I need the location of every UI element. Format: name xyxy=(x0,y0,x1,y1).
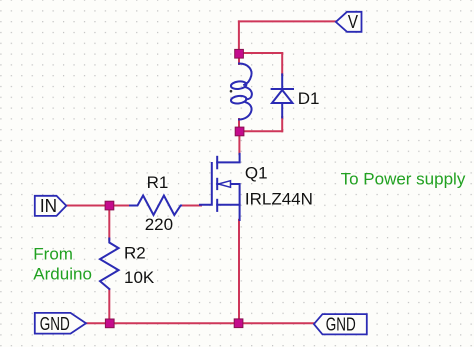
mosfet arrow xyxy=(218,181,230,188)
svg-text:R1: R1 xyxy=(147,173,169,192)
junction node top (inductor top) xyxy=(235,49,244,58)
wire diode branch lower vertical xyxy=(281,117,283,131)
svg-text:To Power supply: To Power supply xyxy=(341,169,466,188)
resistor R1 xyxy=(130,196,181,216)
wire top rail from corner to V port xyxy=(239,20,336,22)
wire R1 to gate xyxy=(181,205,201,207)
svg-text:IN: IN xyxy=(40,195,57,216)
diode D1 xyxy=(272,74,293,117)
wire R2 top xyxy=(108,206,110,240)
junction node bottom middle xyxy=(234,319,243,328)
label IN xyxy=(40,195,57,216)
wire diode branch top horizontal xyxy=(239,52,282,54)
wire mosfet source down to bottom junction xyxy=(238,220,240,323)
svg-text:220: 220 xyxy=(145,215,173,234)
svg-text:Q1: Q1 xyxy=(245,163,268,182)
label V xyxy=(348,12,359,33)
gate lead and gate bar xyxy=(200,163,212,205)
black dot near inductor xyxy=(230,90,233,93)
wire IN to R1 xyxy=(66,205,131,207)
svg-text:Arduino: Arduino xyxy=(33,265,92,284)
source line xyxy=(217,204,239,206)
svg-text:GND: GND xyxy=(326,315,356,336)
wire inductor top stub xyxy=(238,54,240,64)
wire R2 bottom xyxy=(108,290,110,324)
label GND right xyxy=(326,315,356,336)
channel segment bottom xyxy=(216,200,218,211)
wire vertical from top corner down to junction xyxy=(238,21,240,53)
wire bottom rail xyxy=(86,322,314,324)
port GND left xyxy=(35,313,86,334)
svg-text:From: From xyxy=(33,244,73,263)
resistor R2 xyxy=(100,239,119,290)
label GND left xyxy=(40,314,70,335)
wire junction2 to mosfet drain xyxy=(238,131,240,154)
svg-text:D1: D1 xyxy=(298,89,320,108)
wire diode branch bottom horizontal xyxy=(240,130,282,132)
svg-text:V: V xyxy=(348,12,359,33)
port IN xyxy=(35,196,67,216)
svg-text:GND: GND xyxy=(40,314,70,335)
svg-text:IRLZ44N: IRLZ44N xyxy=(245,190,313,209)
inductor L1 coil xyxy=(231,64,252,120)
junction node GND left xyxy=(105,319,114,328)
svg-text:R2: R2 xyxy=(124,243,146,262)
channel segment top xyxy=(216,157,218,169)
wire inductor bottom stub xyxy=(238,119,240,131)
drain line xyxy=(217,154,239,163)
wire diode branch upper vertical xyxy=(281,53,283,75)
transistor Q1 mosfet xyxy=(200,154,240,220)
junction node IN/R2 xyxy=(105,201,114,210)
port GND right xyxy=(314,314,367,334)
port V xyxy=(336,12,362,32)
channel segment middle xyxy=(216,179,218,189)
body line with source vertical xyxy=(217,184,239,220)
junction node inductor bottom xyxy=(235,127,244,136)
svg-text:10K: 10K xyxy=(124,268,155,287)
